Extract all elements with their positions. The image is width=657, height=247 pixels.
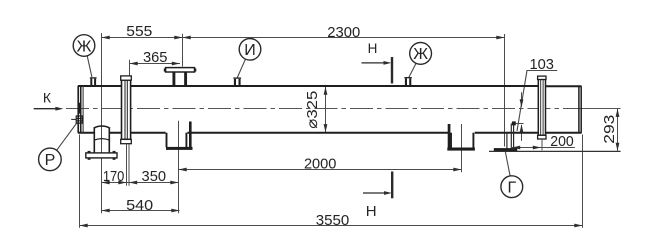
bottom square nozzle left (x=178) (166, 133, 168, 148)
dimension line 200 with text shelf (y=147.7) (512, 147, 575, 149)
dimension line dia325 (x=325.3) (325, 87, 327, 133)
drain nozzle right (G) (506, 133, 508, 149)
dia 325 (324, 87, 328, 95)
svg-text:Г: Г (507, 180, 516, 197)
svg-text:⌀325: ⌀325 (304, 91, 321, 129)
dimension line 2000 (y=169.9) (179, 169, 462, 171)
dimension line 540 (y=210.3) (102, 210, 180, 212)
flange plate G (494, 148, 518, 151)
365 (130, 62, 138, 66)
wire extension 2300 right (x=505) (504, 34, 506, 147)
head bottom line (545, 132, 581, 134)
170 (102, 181, 110, 185)
shell bottom line segments (78, 132, 94, 134)
view K (55, 107, 63, 111)
label circle Zh left (73, 35, 95, 57)
wire extension bottom nozzle right center (x=461.5) (461, 124, 463, 172)
section marker H upper (391, 57, 393, 84)
nozzle Zh right (small, top) (404, 77, 411, 79)
svg-text:2000: 2000 (304, 156, 337, 173)
dimension line 365 (y=64.9) (130, 63, 181, 65)
leader R (57, 123, 77, 151)
leader 103 (517, 71, 527, 132)
svg-text:Р: Р (45, 152, 56, 169)
flanged nozzle top (x=179.6) (166, 68, 195, 72)
540 (102, 209, 110, 213)
leader I (237, 59, 245, 77)
svg-text:200: 200 (550, 133, 574, 150)
dimension 103 vertical arrows line (x=521.4) (521, 92, 523, 106)
wire extension 3550 right (x=582.6) (582, 135, 584, 228)
right end cap lines (578, 86, 580, 133)
svg-text:Ж: Ж (413, 46, 428, 63)
svg-text:350: 350 (142, 168, 167, 185)
svg-text:Ж: Ж (77, 38, 92, 55)
293 (616, 109, 620, 117)
label circle I (239, 39, 261, 61)
centerline (66, 108, 584, 110)
svg-text:540: 540 (126, 197, 153, 214)
103 vertical (520, 99, 524, 107)
bottom cylinder nozzle (left) (94, 126, 110, 128)
girth flange left (122, 80, 131, 139)
nozzle I (small, top) (233, 77, 241, 79)
svg-text:И: И (244, 42, 256, 59)
2000 (179, 168, 187, 172)
svg-text:3550: 3550 (316, 212, 350, 229)
555 left (102, 36, 110, 40)
label circle Zh right (410, 43, 432, 65)
bottom square nozzle right (x=461.5) (450, 133, 452, 148)
nozzle K stub (76, 116, 82, 123)
node tail at dot (y=123.4) (516, 123, 524, 125)
3550 (80, 224, 88, 228)
wire extension line 555/2300 shared (x=182) (182, 34, 184, 67)
svg-text:Н: Н (366, 203, 377, 220)
wire extension 200 right at girth flange (x=542) (541, 140, 543, 150)
wire extension 3550 left (x=79.6) (79, 135, 81, 228)
dimension line 170+350 (y=182.9) (102, 182, 179, 184)
svg-text:Н: Н (368, 41, 378, 56)
wire extension line 365 left (x=129.2) (129, 60, 131, 86)
view arrow K (34, 108, 58, 110)
svg-text:К: К (43, 89, 52, 105)
wire extension bottom nozzle left center (x=178.2) (178, 121, 180, 214)
555 right / 2300 left at shared (174, 36, 182, 40)
svg-text:103: 103 (529, 56, 554, 73)
node dot (512, 121, 516, 125)
nozzle Zh left (small, top) (90, 77, 97, 79)
200 (512, 146, 520, 150)
wire extension line 555 left / 540 / 170 (x=101.7) (101, 33, 103, 213)
leader G (505, 152, 510, 177)
dimension underline 103 (y=70.1) (527, 70, 558, 72)
section H upper (384, 61, 392, 65)
left end cap lines (77, 86, 79, 133)
shell top line (78, 85, 538, 87)
dimension line 3550 (y=225.4) (80, 225, 583, 227)
label circle R (39, 148, 62, 171)
arrowheads (55, 36, 619, 228)
svg-text:365: 365 (143, 49, 168, 66)
leader zh-right (409, 63, 416, 77)
girth flange right (538, 79, 545, 135)
svg-text:555: 555 (126, 23, 152, 40)
dimension line 555 and 2300 (y=37.6) (102, 37, 505, 39)
2300 right (496, 36, 504, 40)
svg-text:2300: 2300 (327, 24, 360, 41)
section marker H lower (391, 172, 393, 199)
dimension line 293 (x=618) (617, 109, 619, 151)
baseline (489, 150, 621, 152)
left end weld block (78, 103, 81, 114)
section H lower (384, 191, 392, 195)
head top line (545, 85, 581, 87)
350 (129, 181, 137, 185)
leader zh-left (87, 56, 92, 77)
svg-text:170: 170 (103, 168, 125, 185)
wire extension pair below flange (x=127.1, x=129.4) (126, 144, 128, 186)
label circle G (501, 176, 523, 198)
svg-text:293: 293 (601, 115, 618, 144)
